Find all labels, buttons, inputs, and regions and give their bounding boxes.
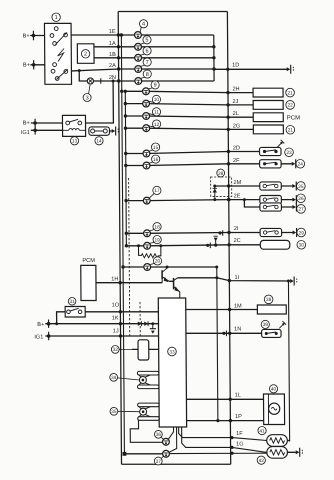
svg-text:22: 22 <box>287 103 293 109</box>
svg-text:33: 33 <box>169 349 175 355</box>
svg-text:28: 28 <box>218 171 224 177</box>
svg-text:17: 17 <box>154 188 160 194</box>
svg-text:42: 42 <box>259 458 265 464</box>
svg-text:2L: 2L <box>233 111 239 117</box>
svg-text:6: 6 <box>145 49 148 55</box>
svg-text:16: 16 <box>153 157 159 163</box>
svg-text:36: 36 <box>156 432 162 438</box>
svg-text:1B: 1B <box>109 52 116 58</box>
svg-text:B+: B+ <box>23 63 30 69</box>
svg-text:1A: 1A <box>109 41 116 47</box>
svg-text:34: 34 <box>111 375 117 381</box>
svg-text:13: 13 <box>72 139 78 145</box>
svg-text:5: 5 <box>145 38 148 44</box>
svg-text:11: 11 <box>154 110 159 116</box>
svg-text:1D: 1D <box>232 63 239 69</box>
svg-text:7: 7 <box>146 60 149 66</box>
svg-text:IG1: IG1 <box>34 334 43 340</box>
svg-text:19: 19 <box>154 237 160 243</box>
svg-text:1: 1 <box>55 15 58 21</box>
svg-text:2C: 2C <box>234 238 241 244</box>
svg-text:25: 25 <box>298 184 304 190</box>
svg-text:1M: 1M <box>234 303 242 309</box>
svg-text:14: 14 <box>96 139 102 145</box>
svg-text:35: 35 <box>111 409 117 415</box>
svg-text:2J: 2J <box>233 99 239 105</box>
svg-text:21: 21 <box>287 90 293 96</box>
svg-text:1N: 1N <box>234 327 241 333</box>
svg-text:21: 21 <box>288 128 294 134</box>
svg-text:2G: 2G <box>233 123 241 129</box>
svg-text:1I: 1I <box>235 275 240 281</box>
svg-text:9: 9 <box>154 83 157 89</box>
svg-text:IG1: IG1 <box>21 130 30 136</box>
svg-text:31: 31 <box>69 299 75 305</box>
svg-text:12: 12 <box>154 122 160 128</box>
svg-text:PCM: PCM <box>82 258 95 264</box>
svg-text:1P: 1P <box>235 414 242 420</box>
svg-text:2A: 2A <box>109 63 116 69</box>
svg-text:18: 18 <box>154 225 160 231</box>
svg-text:2D: 2D <box>233 146 240 152</box>
svg-text:32: 32 <box>113 347 119 353</box>
svg-text:B+: B+ <box>23 120 30 126</box>
svg-text:B+: B+ <box>23 33 30 39</box>
svg-text:1O: 1O <box>112 303 120 309</box>
svg-text:1L: 1L <box>235 393 241 399</box>
svg-text:20: 20 <box>155 259 161 265</box>
svg-text:23: 23 <box>286 150 292 156</box>
svg-text:3: 3 <box>86 95 89 101</box>
svg-text:1K: 1K <box>112 316 119 322</box>
svg-text:2M: 2M <box>234 180 242 186</box>
svg-text:4: 4 <box>142 22 145 28</box>
svg-text:B+: B+ <box>37 322 44 328</box>
svg-text:1F: 1F <box>236 431 243 437</box>
svg-text:39: 39 <box>263 322 269 328</box>
svg-text:2F: 2F <box>233 158 240 164</box>
svg-text:1J: 1J <box>113 328 119 334</box>
svg-text:37: 37 <box>156 459 162 465</box>
svg-text:24: 24 <box>298 162 304 168</box>
svg-text:29: 29 <box>299 230 305 236</box>
svg-text:2H: 2H <box>232 87 239 93</box>
svg-text:10: 10 <box>154 97 160 103</box>
svg-text:15: 15 <box>153 145 159 151</box>
svg-text:41: 41 <box>259 428 265 434</box>
svg-text:8: 8 <box>146 72 149 78</box>
svg-text:26: 26 <box>298 196 304 202</box>
svg-text:2E: 2E <box>234 194 241 200</box>
svg-text:PCM: PCM <box>287 115 300 121</box>
svg-text:30: 30 <box>299 243 305 249</box>
svg-text:27: 27 <box>298 207 304 213</box>
svg-text:38: 38 <box>266 297 272 303</box>
svg-text:1E: 1E <box>109 29 116 35</box>
svg-text:1H: 1H <box>111 276 118 282</box>
svg-text:40: 40 <box>271 387 277 393</box>
svg-text:2I: 2I <box>234 226 239 232</box>
svg-text:1G: 1G <box>236 442 244 448</box>
svg-text:2: 2 <box>84 52 87 58</box>
